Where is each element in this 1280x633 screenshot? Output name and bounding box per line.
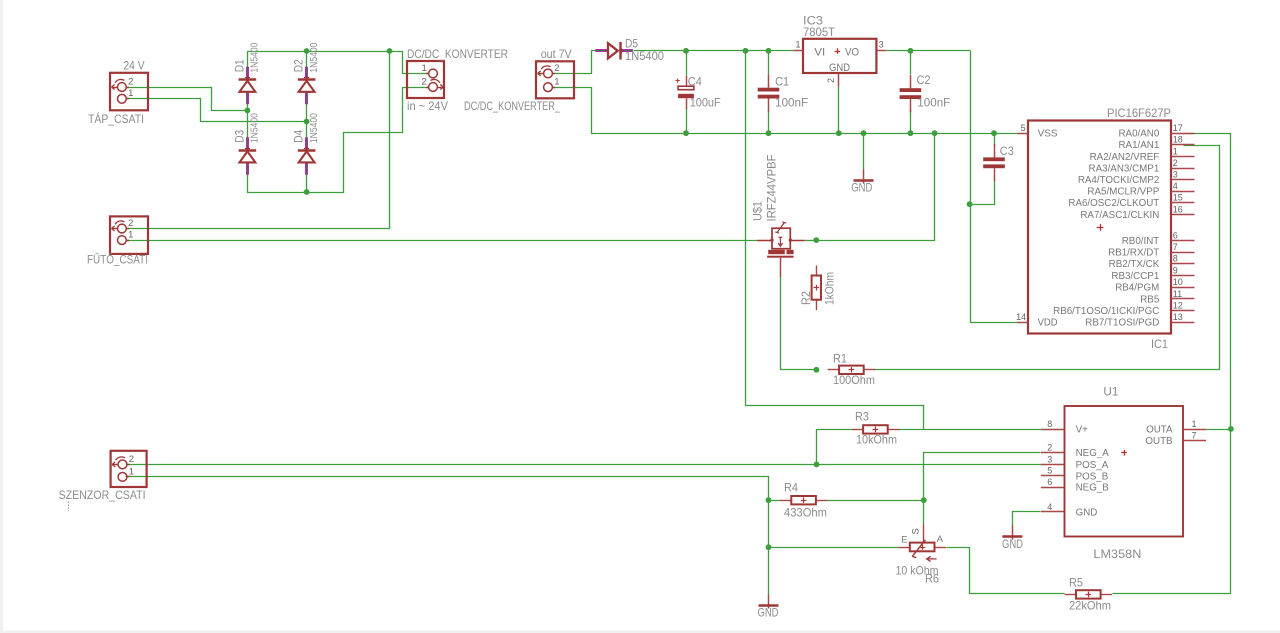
svg-text:RA5/MCLR/VPP: RA5/MCLR/VPP bbox=[1087, 187, 1159, 198]
svg-text:1: 1 bbox=[1173, 146, 1178, 156]
svg-text:2: 2 bbox=[128, 218, 133, 229]
svg-text:2: 2 bbox=[129, 454, 134, 465]
svg-text:1: 1 bbox=[128, 88, 133, 99]
svg-text:10: 10 bbox=[1173, 277, 1183, 287]
svg-text:22kOhm: 22kOhm bbox=[1069, 598, 1111, 612]
svg-text:R4: R4 bbox=[784, 480, 798, 494]
svg-text:4: 4 bbox=[1047, 502, 1052, 512]
svg-text:E: E bbox=[901, 534, 907, 545]
svg-text:LM358N: LM358N bbox=[1093, 547, 1141, 561]
svg-text:PIC16F627P: PIC16F627P bbox=[1107, 106, 1171, 120]
svg-text:6: 6 bbox=[1047, 477, 1052, 487]
svg-text:V+: V+ bbox=[1076, 425, 1089, 436]
svg-text:1N5400: 1N5400 bbox=[248, 42, 260, 72]
svg-text:13: 13 bbox=[1173, 312, 1183, 322]
svg-text:15: 15 bbox=[1173, 193, 1183, 203]
svg-text:RA1/AN1: RA1/AN1 bbox=[1118, 140, 1159, 151]
svg-text:14: 14 bbox=[1016, 312, 1026, 322]
svg-text:RA4/TOCKI/CMP2: RA4/TOCKI/CMP2 bbox=[1078, 175, 1159, 186]
svg-text:VDD: VDD bbox=[1038, 318, 1058, 329]
svg-text:out 7V: out 7V bbox=[541, 47, 572, 61]
svg-text:7: 7 bbox=[1192, 430, 1197, 440]
svg-text:A: A bbox=[937, 534, 944, 545]
svg-text:RB1/RX/DT: RB1/RX/DT bbox=[1108, 248, 1159, 259]
svg-text:8: 8 bbox=[1173, 254, 1178, 264]
svg-text:RA0/AN0: RA0/AN0 bbox=[1118, 129, 1159, 140]
svg-text:OUTA: OUTA bbox=[1146, 425, 1173, 436]
svg-text:3: 3 bbox=[1047, 454, 1052, 464]
svg-text:RB7/T1OSI/PGD: RB7/T1OSI/PGD bbox=[1085, 318, 1159, 329]
svg-text:2: 2 bbox=[422, 76, 427, 87]
svg-text:R6: R6 bbox=[925, 572, 939, 586]
svg-text:7805T: 7805T bbox=[803, 25, 836, 39]
svg-text:16: 16 bbox=[1173, 204, 1183, 214]
svg-text:R2: R2 bbox=[799, 291, 813, 305]
svg-text:VI: VI bbox=[814, 46, 825, 58]
svg-text:C3: C3 bbox=[1000, 144, 1014, 158]
svg-text:FŰTŐ_CSATI: FŰTŐ_CSATI bbox=[87, 252, 148, 267]
svg-text:NEG_B: NEG_B bbox=[1076, 483, 1110, 494]
svg-text:VSS: VSS bbox=[1038, 129, 1058, 140]
svg-text:RB6/T1OSO/1ICKI/PGC: RB6/T1OSO/1ICKI/PGC bbox=[1053, 306, 1159, 317]
svg-text:NEG_A: NEG_A bbox=[1076, 448, 1110, 459]
svg-text:1: 1 bbox=[554, 77, 559, 88]
svg-text:DC/DC_KONVERTER_: DC/DC_KONVERTER_ bbox=[464, 99, 560, 113]
svg-text:1N5400: 1N5400 bbox=[308, 42, 320, 72]
svg-text:5: 5 bbox=[1021, 123, 1026, 133]
svg-text:VO: VO bbox=[845, 46, 859, 58]
svg-text:100nF: 100nF bbox=[775, 95, 808, 109]
svg-text:OUTB: OUTB bbox=[1145, 436, 1173, 447]
svg-text:IC1: IC1 bbox=[1151, 337, 1168, 351]
svg-text:D4: D4 bbox=[292, 130, 306, 143]
svg-text:POS_A: POS_A bbox=[1076, 460, 1109, 471]
svg-text:C4: C4 bbox=[688, 74, 702, 88]
svg-text:24 V: 24 V bbox=[124, 59, 145, 73]
svg-text:S: S bbox=[910, 528, 921, 534]
svg-text:SZENZOR_CSATI: SZENZOR_CSATI bbox=[59, 488, 146, 502]
svg-text:D1: D1 bbox=[232, 59, 246, 72]
svg-text:2: 2 bbox=[554, 63, 559, 74]
svg-text:5: 5 bbox=[1047, 466, 1052, 476]
svg-text:IRFZ44VPBF: IRFZ44VPBF bbox=[764, 155, 778, 222]
svg-text:POS_B: POS_B bbox=[1076, 471, 1109, 482]
svg-text:GND: GND bbox=[1002, 537, 1023, 551]
svg-text:1: 1 bbox=[795, 40, 800, 50]
svg-text:GND: GND bbox=[758, 606, 779, 620]
svg-text:D3: D3 bbox=[232, 130, 246, 143]
svg-text:1N5400: 1N5400 bbox=[308, 113, 320, 143]
svg-text:RA6/OSC2/CLKOUT: RA6/OSC2/CLKOUT bbox=[1068, 198, 1159, 209]
svg-text:2: 2 bbox=[1047, 442, 1052, 452]
svg-text:100nF: 100nF bbox=[917, 95, 950, 109]
svg-text:RB0/INT: RB0/INT bbox=[1122, 236, 1160, 247]
svg-text:17: 17 bbox=[1173, 123, 1183, 133]
svg-text:TÁP_CSATI: TÁP_CSATI bbox=[88, 111, 144, 126]
svg-text:DC/DC_KONVERTER: DC/DC_KONVERTER bbox=[407, 47, 508, 61]
svg-text:1: 1 bbox=[129, 466, 134, 477]
svg-text:GND: GND bbox=[851, 181, 872, 195]
svg-text:2: 2 bbox=[1173, 158, 1178, 168]
svg-text:R3: R3 bbox=[855, 409, 869, 423]
svg-text:C2: C2 bbox=[917, 73, 931, 87]
svg-text:GND: GND bbox=[829, 62, 850, 74]
svg-text:RB4/PGM: RB4/PGM bbox=[1115, 283, 1159, 294]
svg-text:1: 1 bbox=[128, 230, 133, 241]
svg-text:8: 8 bbox=[1047, 419, 1052, 429]
svg-text:10kOhm: 10kOhm bbox=[856, 432, 897, 446]
svg-text:R5: R5 bbox=[1069, 575, 1083, 589]
svg-text:100Ohm: 100Ohm bbox=[833, 373, 875, 387]
svg-text:RA7/ASC1/CLKIN: RA7/ASC1/CLKIN bbox=[1080, 210, 1159, 221]
svg-text:3: 3 bbox=[879, 40, 884, 50]
svg-text:100uF: 100uF bbox=[690, 95, 721, 109]
svg-text:7: 7 bbox=[1173, 242, 1178, 252]
svg-text:U$1: U$1 bbox=[751, 201, 765, 221]
svg-text:2: 2 bbox=[826, 78, 836, 83]
svg-text:RB2/TX/CK: RB2/TX/CK bbox=[1109, 259, 1160, 270]
svg-text:U1: U1 bbox=[1103, 385, 1118, 399]
svg-text:1kOhm: 1kOhm bbox=[823, 272, 837, 305]
svg-text:6: 6 bbox=[1173, 230, 1178, 240]
svg-text:GND: GND bbox=[1076, 507, 1098, 518]
svg-text:RB5: RB5 bbox=[1140, 294, 1160, 305]
svg-text:in ~ 24V: in ~ 24V bbox=[407, 99, 448, 113]
svg-text:4: 4 bbox=[1173, 181, 1178, 191]
svg-text:12: 12 bbox=[1173, 301, 1183, 311]
svg-text:433Ohm: 433Ohm bbox=[784, 505, 827, 519]
svg-text:1: 1 bbox=[1192, 419, 1197, 429]
svg-text:3: 3 bbox=[1173, 170, 1178, 180]
svg-text:2: 2 bbox=[128, 76, 133, 87]
svg-text:1N5400: 1N5400 bbox=[625, 49, 664, 63]
svg-text:1: 1 bbox=[422, 63, 427, 74]
svg-text:RA3/AN3/CMP1: RA3/AN3/CMP1 bbox=[1089, 163, 1160, 174]
svg-text:C1: C1 bbox=[775, 74, 789, 88]
svg-text:RB3/CCP1: RB3/CCP1 bbox=[1111, 271, 1159, 282]
svg-text:D2: D2 bbox=[292, 59, 306, 72]
svg-text:1N5400: 1N5400 bbox=[248, 113, 260, 143]
svg-text:R1: R1 bbox=[833, 351, 847, 365]
svg-text:RA2/AN2/VREF: RA2/AN2/VREF bbox=[1090, 152, 1160, 163]
svg-text:9: 9 bbox=[1173, 265, 1178, 275]
svg-text:11: 11 bbox=[1173, 289, 1182, 299]
svg-text:18: 18 bbox=[1173, 135, 1183, 145]
